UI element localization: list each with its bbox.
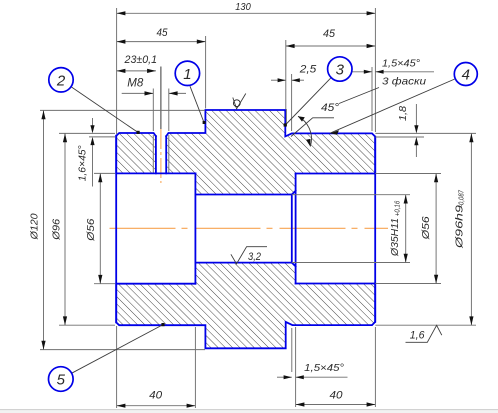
svg-text:Ø120: Ø120 [29, 213, 41, 240]
svg-text:1,5×45°: 1,5×45° [304, 362, 344, 374]
svg-text:1: 1 [183, 66, 191, 83]
svg-text:+0,16: +0,16 [394, 201, 401, 217]
svg-text:Ø35Н11: Ø35Н11 [390, 218, 401, 257]
svg-text:Ø56: Ø56 [420, 216, 432, 240]
svg-text:45: 45 [323, 28, 336, 40]
svg-text:Ø96h9: Ø96h9 [455, 204, 466, 249]
svg-text:130: 130 [235, 1, 251, 13]
callout circle 3 [284, 57, 352, 127]
left face line full [115, 136, 117, 323]
dim Ø96 (left) [50, 133, 115, 325]
dim 40 bottom right [296, 327, 376, 407]
dim 1,6×45° (left chamfer) [78, 118, 115, 187]
svg-text:2: 2 [56, 72, 66, 89]
dim 45 right [286, 28, 376, 126]
svg-text:1,6×45°: 1,6×45° [78, 145, 89, 181]
svg-text:-0,087: -0,087 [459, 189, 466, 207]
dim Ø56 (left) [85, 173, 115, 283]
svg-text:23±0,1: 23±0,1 [124, 54, 157, 66]
right face line full [374, 137, 376, 322]
sheet edge bottom [0, 409, 498, 411]
part outline top (blue) [116, 110, 375, 174]
M8 thread lines [152, 135, 154, 173]
svg-text:3,2: 3,2 [248, 251, 261, 263]
callout circle 4 [330, 63, 477, 135]
callout circle 2 [49, 68, 140, 134]
svg-text:2,5: 2,5 [299, 64, 318, 76]
hatched section: bottom block [116, 263, 375, 349]
M8 hole walls (blue) [156, 136, 166, 173]
callout circle 1 [175, 61, 205, 124]
roughness 3,2 center [231, 247, 267, 264]
svg-text:1,5×45°: 1,5×45° [382, 58, 420, 70]
hatched section: top block right of M8 hole [166, 110, 375, 195]
svg-text:5: 5 [57, 372, 66, 389]
dim 40 bottom left [117, 326, 196, 408]
dim Ø96h9 (right) [375, 133, 476, 325]
dim Ø120 (left) [29, 110, 206, 349]
svg-text:45°: 45° [321, 102, 340, 114]
roughness 1,6 bottom right [406, 325, 442, 342]
svg-text:3 фаски: 3 фаски [382, 76, 426, 88]
dim 130 top [117, 1, 376, 134]
dim 23±0,1 [117, 54, 161, 129]
svg-text:Ø56: Ø56 [85, 219, 97, 242]
centerline horizontal (orange axis) [110, 227, 389, 229]
dim 1,5×45° / 3 фаски (top right) [352, 58, 434, 132]
centerline M8 hole (orange) [160, 129, 162, 183]
bore step walls (blue) [195, 173, 295, 283]
roughness symbol top (circle check) [233, 94, 246, 109]
dim 45° angle with arc [291, 88, 379, 147]
svg-text:40: 40 [330, 390, 344, 402]
dim 2,5 (groove width) [271, 64, 317, 132]
part outline bottom (blue) [116, 284, 375, 349]
svg-text:М8: М8 [127, 78, 144, 90]
dim 1,5×45° bottom (bore chamfer) [277, 328, 348, 379]
svg-text:45: 45 [157, 27, 169, 39]
dim Ø56 (right) [375, 174, 441, 284]
dim M8 [122, 78, 186, 132]
svg-text:4: 4 [462, 67, 470, 84]
svg-text:1,6: 1,6 [410, 329, 426, 341]
svg-text:1,8: 1,8 [397, 106, 409, 121]
hatched section: top-left block (left of M8 hole) [116, 133, 156, 173]
dim 45 left [117, 27, 206, 109]
dim 1,8 (groove depth, right) [375, 104, 476, 157]
svg-text:3: 3 [336, 62, 345, 79]
svg-text:Ø96: Ø96 [50, 219, 62, 241]
svg-text:40: 40 [149, 390, 163, 402]
dim Ø35H11 (right) [292, 195, 410, 263]
callout circle 5 [49, 323, 165, 391]
